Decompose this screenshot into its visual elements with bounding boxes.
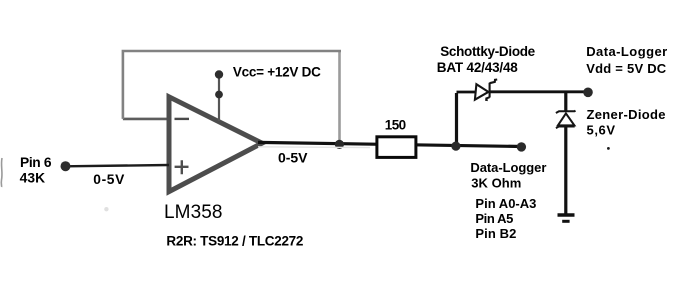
- svg-text:Data-Logger: Data-Logger: [586, 44, 667, 59]
- svg-text:0-5V: 0-5V: [93, 172, 125, 187]
- svg-text:150: 150: [385, 117, 407, 132]
- svg-text:Zener-Diode: Zener-Diode: [587, 107, 666, 122]
- svg-text:Vcc= +12V DC: Vcc= +12V DC: [233, 64, 321, 79]
- svg-text:5,6V: 5,6V: [587, 123, 616, 138]
- svg-text:Pin 6: Pin 6: [20, 155, 52, 170]
- svg-text:Pin A0-A3: Pin A0-A3: [475, 196, 536, 211]
- svg-text:Pin A5: Pin A5: [475, 211, 513, 226]
- svg-text:Schottky-Diode: Schottky-Diode: [440, 44, 535, 59]
- svg-text:Pin B2: Pin B2: [475, 226, 516, 241]
- svg-text:3K Ohm: 3K Ohm: [471, 176, 521, 191]
- svg-text:R2R: TS912 / TLC2272: R2R: TS912 / TLC2272: [166, 234, 303, 249]
- svg-text:Vdd = 5V DC: Vdd = 5V DC: [586, 61, 667, 76]
- svg-text:LM358: LM358: [164, 202, 223, 223]
- svg-text:BAT 42/43/48: BAT 42/43/48: [437, 60, 518, 75]
- svg-text:0-5V: 0-5V: [278, 150, 308, 166]
- svg-text:Data-Logger: Data-Logger: [470, 160, 546, 175]
- svg-text:43K: 43K: [20, 171, 46, 186]
